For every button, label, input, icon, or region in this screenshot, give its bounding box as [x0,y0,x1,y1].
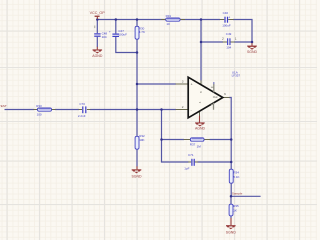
svg-text:2: 2 [222,37,224,41]
svg-text:AGND: AGND [92,54,103,58]
svg-text:4.7K: 4.7K [139,30,145,34]
svg-text:100: 100 [37,112,42,116]
svg-text:+: + [109,29,111,33]
svg-text:LF357: LF357 [232,74,241,78]
svg-text:1M: 1M [197,145,202,149]
svg-text:+: + [228,16,230,20]
svg-text:6: 6 [224,92,226,96]
svg-text:R35: R35 [233,204,239,208]
svg-text:10K: 10K [139,138,144,142]
svg-text:104: 104 [102,35,107,39]
svg-text:Sample: Sample [232,192,243,196]
svg-text:3: 3 [182,79,184,83]
svg-text:AGND: AGND [195,127,206,131]
svg-text:C49: C49 [226,32,232,36]
svg-text:C46: C46 [223,11,229,15]
svg-text:-: - [191,108,192,112]
svg-text:1K: 1K [233,208,237,212]
svg-text:1: 1 [235,37,237,41]
svg-text:Out: Out [213,95,218,99]
svg-text:R37: R37 [190,142,196,146]
svg-text:VCC_OP: VCC_OP [90,11,106,15]
svg-text:SGND: SGND [131,175,142,179]
svg-text:1pF: 1pF [184,167,189,171]
svg-text:SGND: SGND [226,231,237,235]
svg-text:+: + [191,83,193,87]
svg-text:104: 104 [226,46,231,50]
svg-text:100uF: 100uF [222,24,231,28]
svg-text:R33: R33 [36,104,42,108]
svg-text:R31: R31 [166,14,172,18]
svg-text:C71: C71 [188,153,194,157]
svg-text:5.1K: 5.1K [233,175,239,179]
svg-text:SGND: SGND [247,50,258,54]
svg-text:R34: R34 [233,171,239,175]
svg-text:100uF: 100uF [118,32,127,36]
svg-text:2: 2 [182,105,184,109]
svg-text:C70: C70 [79,102,85,106]
svg-text:2.2nF: 2.2nF [78,114,86,118]
svg-text:TEST: TEST [0,104,7,108]
svg-text:10: 10 [166,22,170,26]
